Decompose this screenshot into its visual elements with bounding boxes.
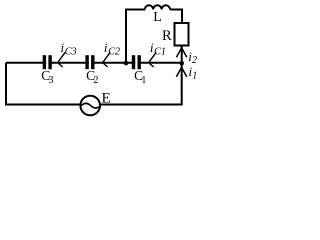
current arrow iC3 — [58, 52, 66, 67]
svg-text:1: 1 — [192, 71, 197, 82]
svg-text:L: L — [153, 10, 162, 25]
resistor R body — [175, 23, 189, 46]
current arrow iC1 — [149, 52, 157, 67]
capacitor C1 plates — [132, 55, 135, 69]
wire: top horizontal left segment — [125, 9, 145, 11]
svg-text:2: 2 — [192, 55, 197, 66]
wire: left vertical + bottom horizontal + right vertical of source loop — [6, 63, 182, 105]
svg-text:1: 1 — [141, 75, 146, 86]
current arrow i2 — [176, 48, 186, 57]
node junction dot between C2 and C1 — [124, 61, 129, 66]
svg-text:R: R — [162, 28, 172, 44]
AC source sine wave — [81, 103, 101, 108]
svg-text:3: 3 — [49, 75, 54, 86]
svg-text:C1: C1 — [154, 47, 166, 58]
current arrow i1 — [176, 67, 186, 76]
svg-text:C3: C3 — [65, 47, 77, 58]
svg-text:2: 2 — [93, 75, 98, 86]
node junction dot at right bus — [179, 61, 184, 66]
svg-text:E: E — [102, 91, 111, 107]
wire: vertical riser from node between C2 and C1 up to top wire — [125, 10, 127, 63]
wire: top horizontal right segment + down to resistor — [170, 10, 182, 24]
capacitor C1 gap mask — [135, 55, 137, 69]
inductor L — [145, 5, 170, 9]
wire: resistor bottom to node — [181, 46, 183, 63]
AC source E circle — [80, 96, 100, 116]
capacitor C2 gap mask — [89, 55, 91, 69]
capacitor C2 plates — [85, 55, 88, 69]
current arrow iC2 — [103, 52, 111, 67]
capacitor C3 gap mask — [46, 55, 48, 69]
capacitor C3 plates — [43, 55, 46, 69]
svg-text:C2: C2 — [108, 47, 120, 58]
wire: main middle horizontal bus — [6, 62, 182, 64]
